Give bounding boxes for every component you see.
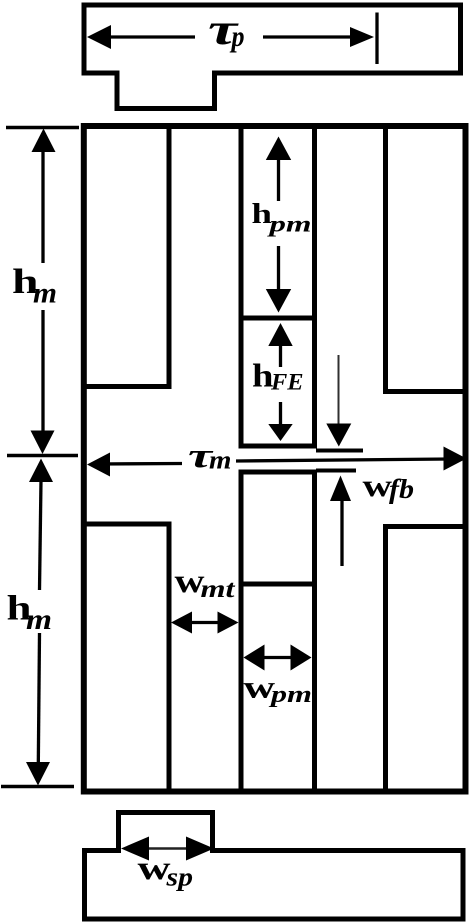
svg-text:mt: mt	[201, 576, 236, 603]
svg-text:m: m	[33, 277, 57, 310]
svg-text:pm: pm	[267, 212, 312, 237]
svg-text:m: m	[209, 446, 232, 475]
svg-text:p: p	[229, 20, 245, 53]
svg-text:w: w	[363, 467, 393, 503]
svg-text:sp: sp	[165, 863, 193, 892]
svg-text:fb: fb	[389, 474, 414, 504]
svg-text:pm: pm	[268, 682, 312, 708]
svg-text:m: m	[26, 603, 52, 636]
svg-text:FE: FE	[270, 370, 304, 395]
